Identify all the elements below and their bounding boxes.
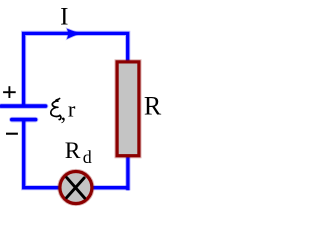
svg-text:,: , <box>61 100 67 125</box>
wire: top loop (left vertical, top horizontal, right vertical into resistor) <box>24 33 128 104</box>
lamp Rd (circle with cross) <box>60 172 92 204</box>
svg-text:R: R <box>144 92 162 121</box>
battery positive plate (long) <box>1 103 45 109</box>
battery - terminal sign <box>6 133 18 135</box>
svg-text:I: I <box>60 4 68 31</box>
wire: below battery down and right to lamp <box>24 120 59 188</box>
svg-text:R: R <box>65 138 81 164</box>
current arrow on top wire <box>67 29 80 39</box>
resistor R (rectangle) <box>117 62 139 156</box>
wire: lamp right to bottom-right corner <box>93 185 129 190</box>
battery + terminal sign <box>3 86 16 98</box>
svg-text:d: d <box>83 147 92 167</box>
battery negative plate (short) <box>12 117 36 123</box>
wire: resistor bottom down to bottom wire <box>125 157 130 191</box>
lamp filament cross <box>67 178 85 198</box>
svg-text:r: r <box>68 96 76 121</box>
label ξ (emf) <box>51 99 61 120</box>
